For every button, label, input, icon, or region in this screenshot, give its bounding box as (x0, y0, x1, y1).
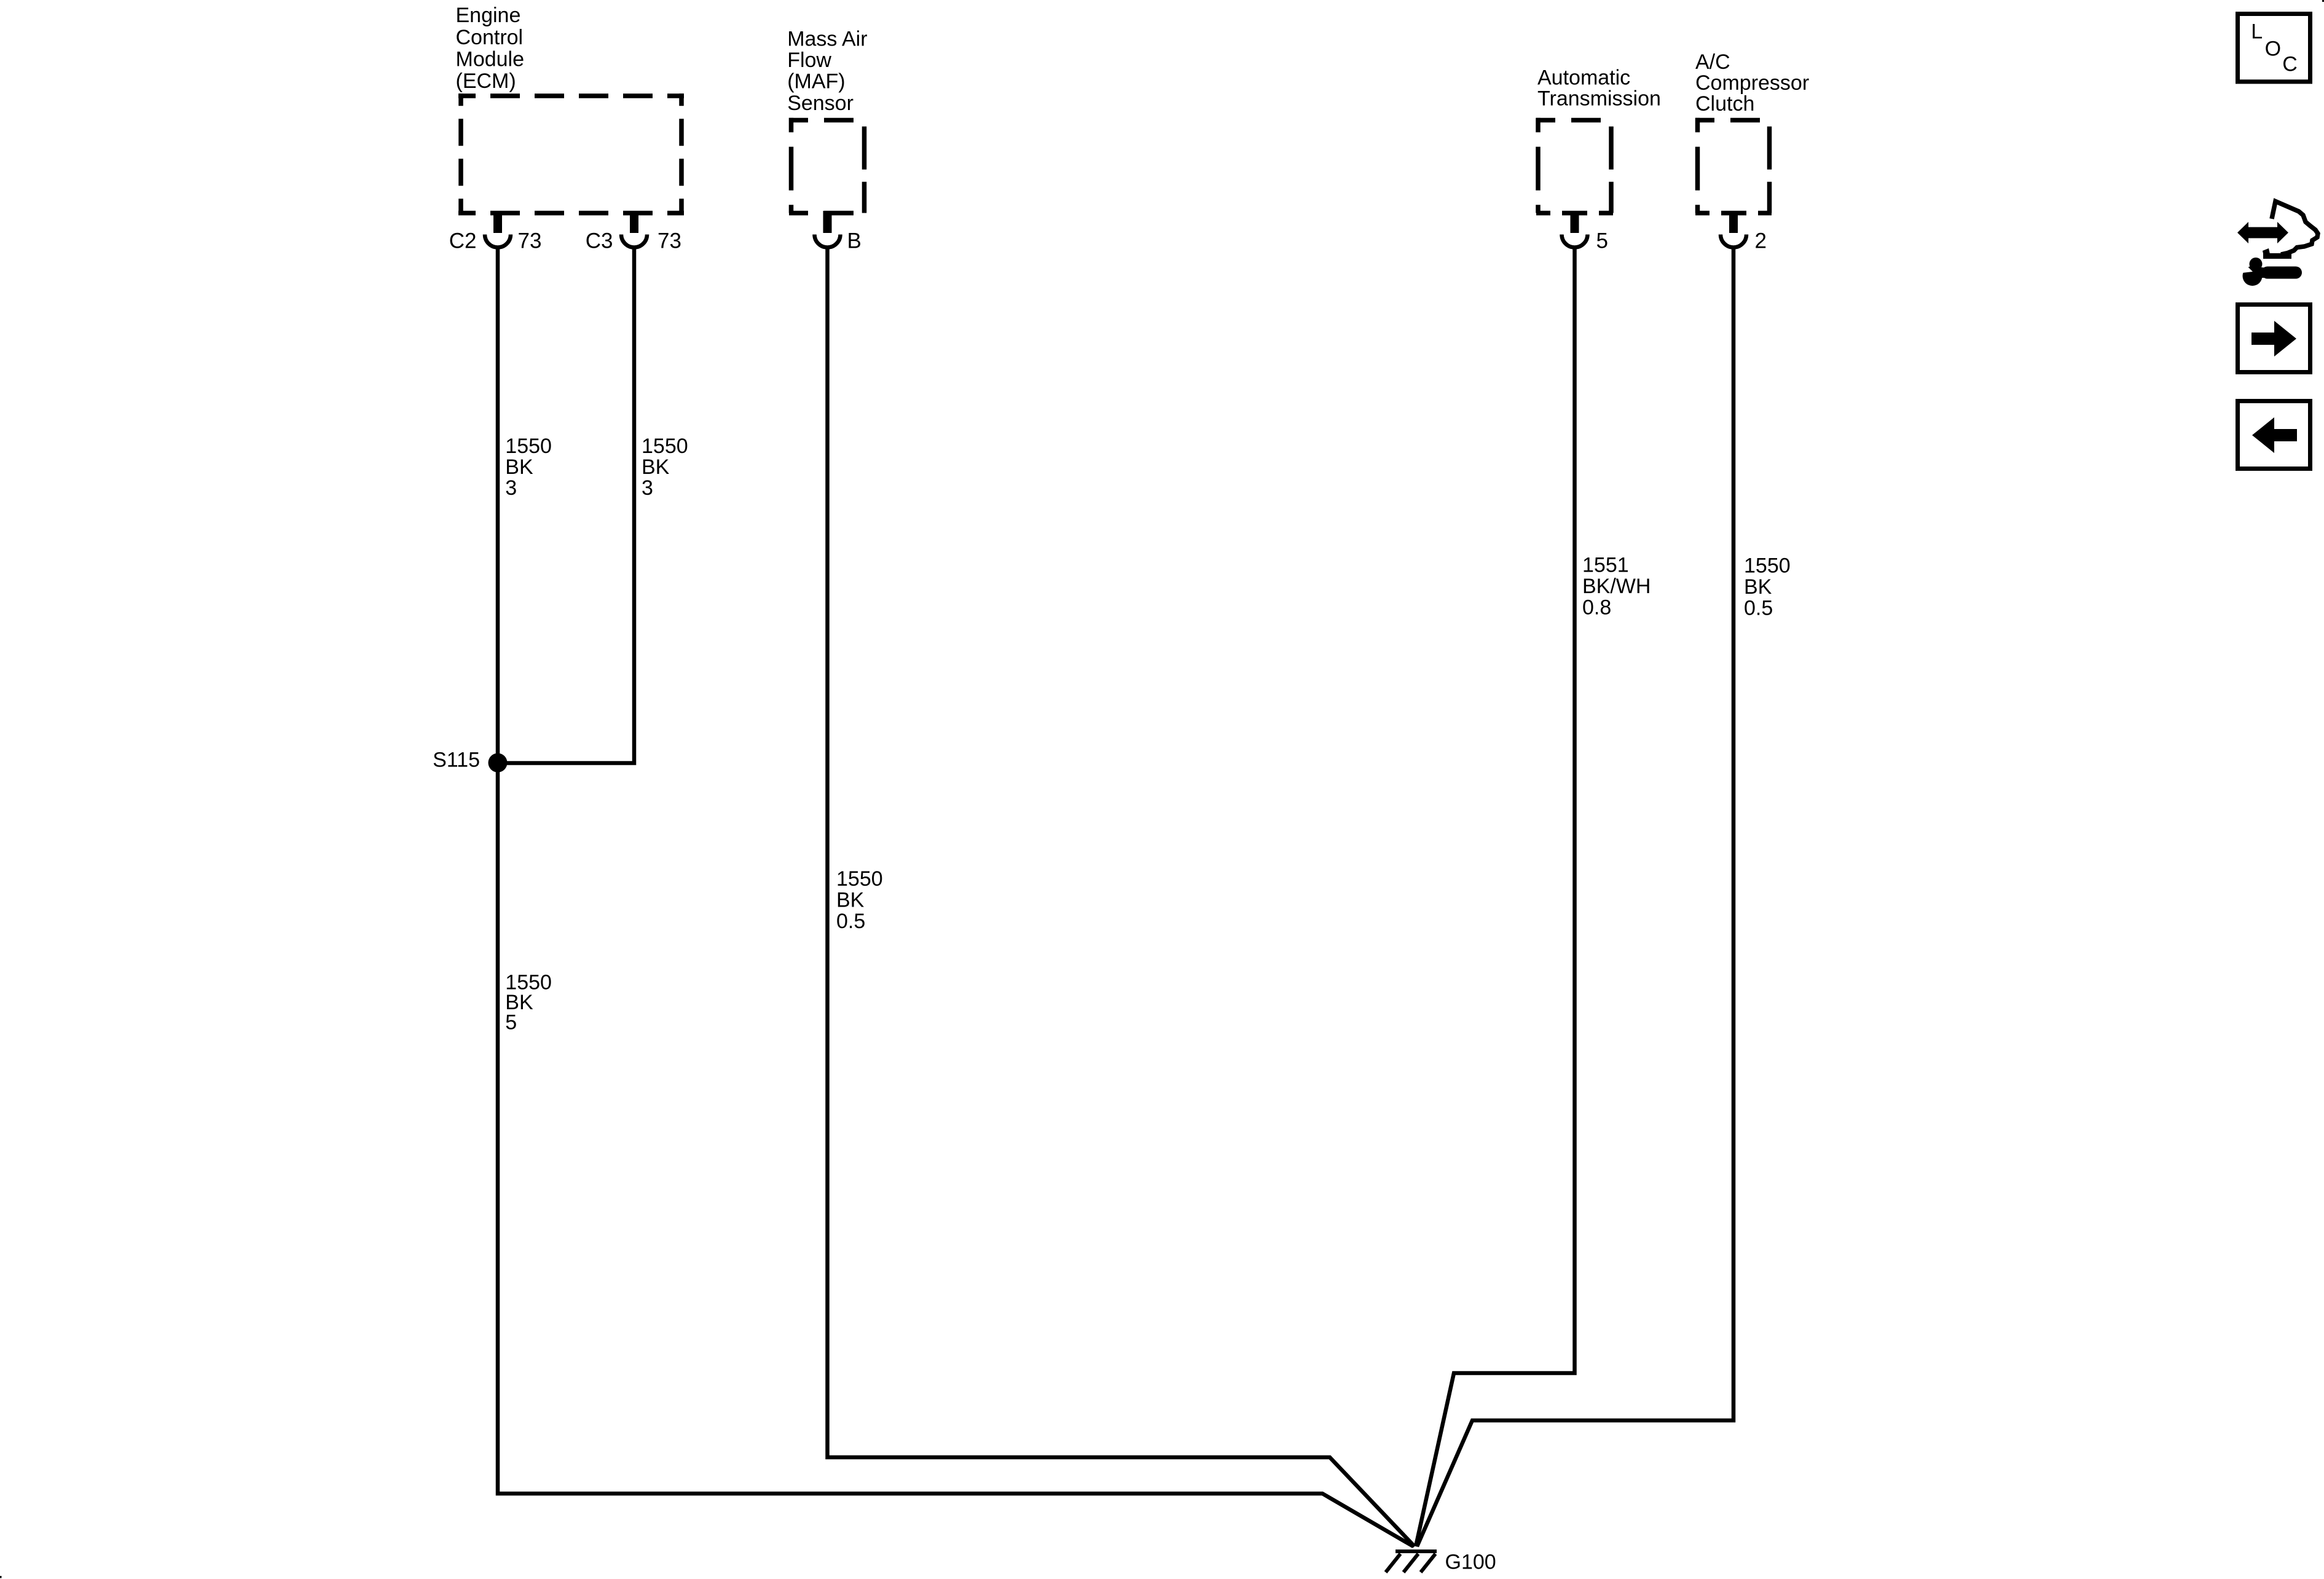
svg-text:Transmission: Transmission (1537, 87, 1661, 111)
svg-text:C2: C2 (449, 229, 477, 253)
svg-text:S115: S115 (433, 749, 480, 772)
svg-text:Sensor: Sensor (787, 92, 854, 115)
wire label 1550 BK 0.5 (A/C) (1744, 554, 1791, 620)
wire Automatic Transmission pin 5 to G100 (1551 BK/WH 0.8) (1416, 247, 1575, 1546)
wire label 1551 BK/WH 0.8 (1582, 554, 1651, 620)
pin C2 73 of ECM (449, 211, 542, 253)
data link connector / scan tool icon (double arrow, connector outline, wrench) (2237, 202, 2318, 286)
svg-text:1550: 1550 (505, 435, 552, 458)
svg-text:Flow: Flow (787, 49, 831, 72)
svg-text:1551: 1551 (1582, 554, 1629, 577)
previous-page arrow icon (left) (2238, 401, 2310, 469)
svg-text:2: 2 (1755, 229, 1767, 253)
MAF sensor box (dashed) (789, 118, 866, 213)
node label A/C Compressor Clutch (1695, 50, 1809, 116)
pin 5 of Automatic Transmission (1562, 211, 1608, 253)
svg-text:1550: 1550 (642, 435, 688, 458)
node label Mass Air Flow (MAF) Sensor (787, 28, 867, 115)
wire MAF B to G100 (1550 BK 0.5) (828, 247, 1415, 1546)
svg-text:(ECM): (ECM) (456, 69, 516, 93)
page artifact marks (0, 1576, 2, 1578)
ground G100 (1386, 1551, 1496, 1574)
svg-text:O: O (2265, 37, 2281, 60)
svg-text:Control: Control (456, 26, 524, 49)
node label Automatic Transmission (1537, 66, 1661, 110)
node label Engine Control Module (ECM) (456, 4, 525, 93)
wire A/C Compressor Clutch pin 2 to G100 (1550 BK 0.5) (1417, 247, 1733, 1546)
wire C2 to S115 to G100 (circuit 1550 BK) (498, 247, 1413, 1546)
svg-text:BK/WH: BK/WH (1582, 575, 1651, 598)
svg-text:Clutch: Clutch (1695, 92, 1754, 116)
svg-text:A/C: A/C (1695, 50, 1730, 74)
wire label 1550 BK 0.5 (MAF) (836, 867, 883, 933)
pin 2 of A/C Compressor Clutch (1721, 211, 1767, 253)
pin B of MAF sensor (815, 211, 862, 253)
svg-text:BK: BK (505, 455, 533, 479)
wire label 1550 BK 5 (below S115) (505, 971, 552, 1034)
svg-text:BK: BK (836, 889, 865, 912)
svg-text:5: 5 (505, 1011, 517, 1034)
svg-text:G100: G100 (1445, 1551, 1496, 1574)
Automatic Transmission box (dashed) (1536, 118, 1613, 213)
svg-text:0.5: 0.5 (836, 910, 865, 933)
svg-text:Engine: Engine (456, 4, 521, 27)
A/C Compressor Clutch box (dashed) (1695, 118, 1772, 213)
svg-text:73: 73 (658, 229, 681, 253)
wire C3 down and left to S115 (498, 247, 634, 763)
ECM module box (dashed) (458, 93, 684, 213)
svg-text:1550: 1550 (836, 867, 883, 891)
wire label 1550 BK 3 (C3) (642, 435, 688, 500)
svg-text:Mass Air: Mass Air (787, 28, 867, 51)
svg-text:C: C (2282, 53, 2298, 76)
LOC legend box icon (2238, 14, 2310, 82)
svg-text:L: L (2251, 20, 2263, 43)
svg-text:1550: 1550 (1744, 554, 1791, 578)
svg-text:Module: Module (456, 48, 525, 71)
svg-text:(MAF): (MAF) (787, 69, 845, 93)
wire label 1550 BK 3 (C2) (505, 435, 552, 500)
svg-text:73: 73 (518, 229, 542, 253)
svg-text:3: 3 (642, 476, 653, 500)
svg-text:Automatic: Automatic (1537, 66, 1630, 89)
svg-text:BK: BK (642, 455, 670, 479)
svg-text:5: 5 (1596, 229, 1608, 253)
svg-text:C3: C3 (586, 229, 613, 253)
svg-text:0.8: 0.8 (1582, 596, 1611, 620)
svg-text:3: 3 (505, 476, 517, 500)
svg-text:0.5: 0.5 (1744, 597, 1773, 620)
pin C3 73 of ECM (586, 211, 681, 253)
next-page arrow icon (right) (2238, 305, 2310, 372)
svg-text:Compressor: Compressor (1695, 71, 1809, 95)
svg-text:B: B (847, 229, 862, 253)
svg-text:BK: BK (1744, 575, 1772, 599)
splice S115 (489, 754, 508, 773)
